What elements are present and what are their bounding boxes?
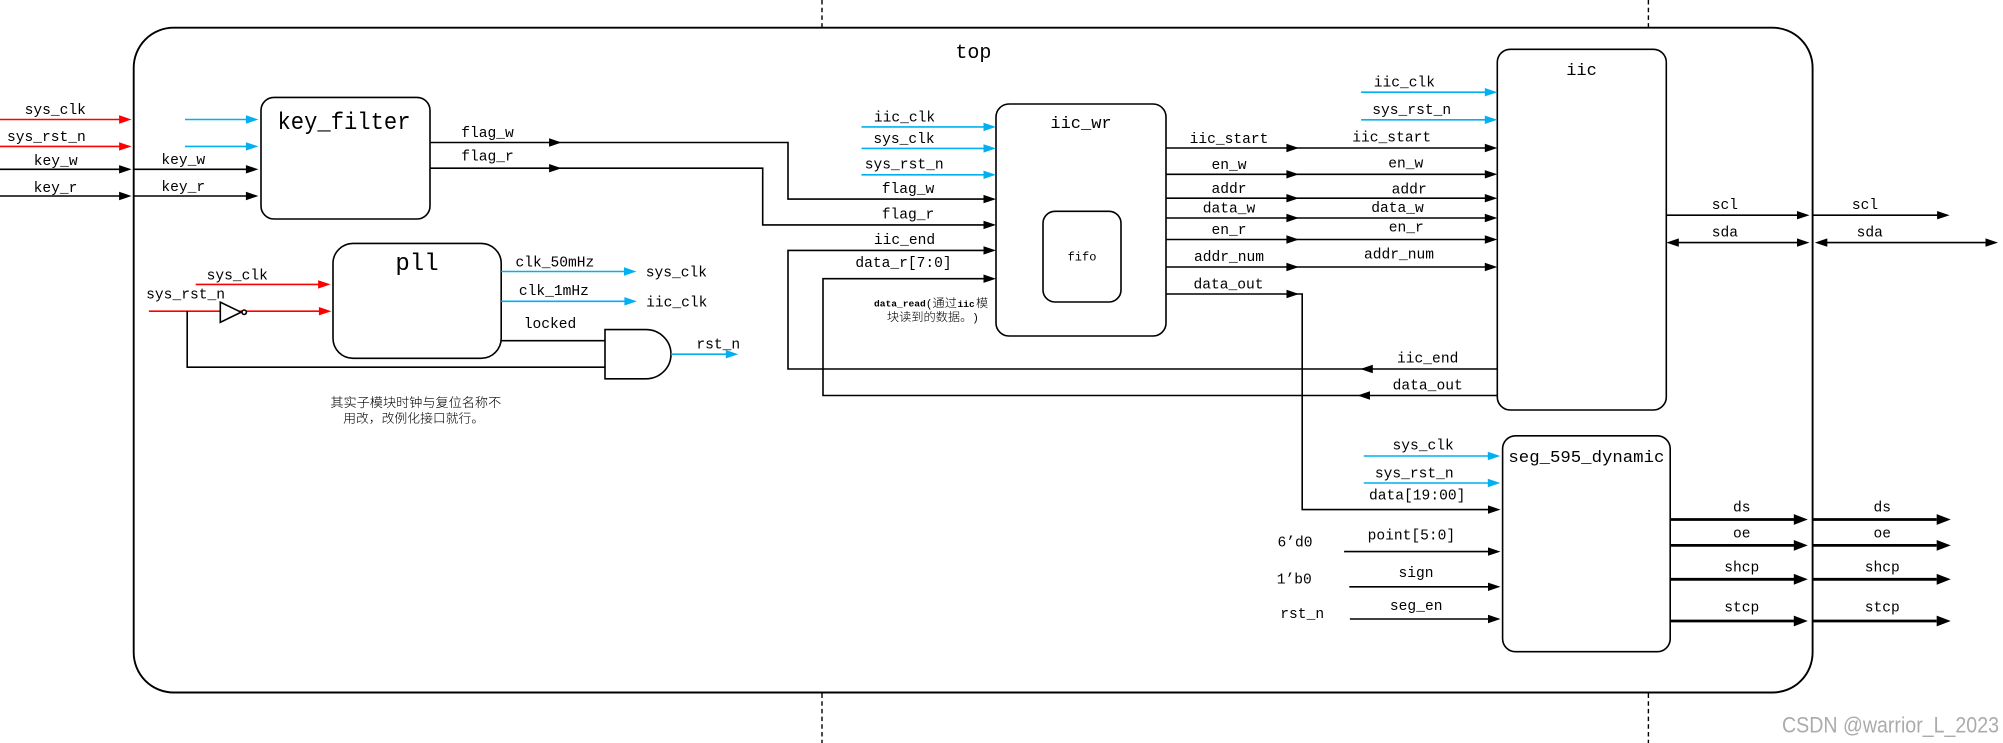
- svg-text:locked: locked: [524, 317, 577, 333]
- wire iic_end feedback (iic to iic_wr): [788, 233, 1497, 373]
- svg-text:rst_n: rst_n: [696, 338, 740, 354]
- wire data_out (iic_wr to seg_595_dynamic data input): [1166, 278, 1501, 514]
- wire sys_clk into pll (red): [196, 268, 331, 288]
- wire sys_clk (external input): [0, 103, 132, 124]
- svg-text:sys_rst_n: sys_rst_n: [1372, 103, 1451, 119]
- svg-text:addr: addr: [1211, 182, 1246, 198]
- wire sys_rst_n into key_filter (cyan): [185, 142, 258, 150]
- wire sda (external, bidirectional): [1815, 225, 1998, 246]
- svg-text:sys_clk: sys_clk: [207, 268, 269, 284]
- svg-text:seg_595_dynamic: seg_595_dynamic: [1508, 449, 1664, 468]
- wire scl (external): [1813, 198, 1950, 219]
- svg-text:sys_clk: sys_clk: [25, 103, 87, 119]
- svg-text:6’d0: 6’d0: [1277, 536, 1312, 552]
- svg-text:data_out: data_out: [1193, 278, 1263, 294]
- svg-text:en_r: en_r: [1211, 223, 1246, 239]
- inverter (NOT gate): [220, 302, 246, 322]
- wire iic_clk into iic_wr (cyan): [862, 111, 997, 132]
- svg-text:(: (: [926, 299, 933, 311]
- page boundary dash top-right: [1647, 0, 1649, 27]
- svg-text:en_r: en_r: [1389, 220, 1424, 236]
- wire key_r (external input): [0, 181, 132, 200]
- svg-text:data_w: data_w: [1371, 201, 1424, 217]
- page boundary dash bottom-right: [1647, 694, 1649, 743]
- wire stcp (seg output): [1670, 601, 1951, 627]
- svg-text:key_r: key_r: [34, 181, 78, 197]
- wire key_r into key_filter: [134, 180, 259, 200]
- svg-text:key_w: key_w: [161, 153, 205, 169]
- wire sign with constant 1'b0: [1277, 566, 1501, 591]
- wire sys_rst_n branch to AND gate: [187, 311, 605, 367]
- svg-text:addr_num: addr_num: [1194, 250, 1264, 266]
- wire addr (iic_wr to iic): [1166, 182, 1497, 202]
- svg-text:rst_n: rst_n: [1280, 607, 1324, 623]
- top module box: [134, 28, 1813, 693]
- svg-text:sys_clk: sys_clk: [1392, 439, 1454, 455]
- wire clk_50mHz to sys_clk (cyan): [501, 256, 707, 282]
- svg-text:sda: sda: [1712, 225, 1739, 241]
- svg-text:key_r: key_r: [161, 180, 205, 196]
- wire sys_clk into key_filter (cyan): [185, 115, 258, 123]
- svg-text:iic_start: iic_start: [1352, 131, 1431, 147]
- svg-text:scl: scl: [1852, 198, 1878, 214]
- svg-text:iic_wr: iic_wr: [1050, 115, 1111, 134]
- svg-text:sign: sign: [1398, 566, 1433, 582]
- svg-text:sys_clk: sys_clk: [646, 265, 708, 281]
- svg-text:flag_w: flag_w: [882, 182, 935, 198]
- wire addr_num (iic_wr to iic): [1166, 248, 1497, 272]
- svg-text:stcp: stcp: [1724, 601, 1759, 617]
- wire data_out feedback (iic to iic_wr data_r): [823, 256, 1497, 400]
- svg-text:stcp: stcp: [1865, 601, 1900, 617]
- svg-text:data_out: data_out: [1393, 378, 1463, 394]
- module key_filter: [261, 97, 430, 219]
- svg-text:shcp: shcp: [1724, 561, 1759, 577]
- wire sys_rst_n into iic_wr (cyan): [862, 158, 997, 179]
- svg-text:iic_end: iic_end: [874, 233, 935, 249]
- svg-text:flag_r: flag_r: [882, 207, 935, 223]
- wire data_w (iic_wr to iic): [1166, 201, 1497, 222]
- svg-text:top: top: [955, 42, 991, 65]
- wire locked to AND gate: [501, 317, 605, 341]
- wire key_w into key_filter: [134, 153, 259, 173]
- module iic_wr: [996, 104, 1166, 336]
- AND gate U1: [605, 330, 671, 379]
- module seg_595_dynamic: [1503, 436, 1671, 652]
- module iic: [1497, 49, 1666, 410]
- svg-text:): ): [972, 313, 979, 325]
- wire flag_w (key_filter to iic_wr): [430, 126, 996, 203]
- svg-text:clk_50mHz: clk_50mHz: [515, 256, 594, 272]
- svg-text:point[5:0]: point[5:0]: [1368, 528, 1456, 544]
- svg-text:oe: oe: [1733, 526, 1751, 542]
- svg-text:iic: iic: [958, 299, 976, 310]
- svg-text:addr: addr: [1392, 183, 1427, 199]
- fifo submodule box: [1043, 211, 1121, 302]
- svg-text:sys_rst_n: sys_rst_n: [1375, 467, 1454, 483]
- wire iic_start (iic_wr to iic): [1166, 131, 1497, 153]
- svg-text:pll: pll: [395, 251, 438, 278]
- wire seg_en driven by rst_n: [1280, 599, 1500, 623]
- svg-text:sda: sda: [1857, 225, 1884, 241]
- svg-text:ds: ds: [1874, 501, 1892, 517]
- wire sys_rst_n into iic (cyan): [1361, 103, 1497, 124]
- wire en_r (iic_wr to iic): [1166, 220, 1497, 243]
- wire sys_rst_n into pll (red, through inverter): [146, 288, 331, 316]
- svg-text:en_w: en_w: [1211, 158, 1246, 174]
- svg-text:ds: ds: [1733, 501, 1751, 517]
- svg-text:sys_rst_n: sys_rst_n: [865, 158, 944, 174]
- svg-text:data_r[7:0]: data_r[7:0]: [855, 256, 951, 272]
- svg-text:iic_clk: iic_clk: [646, 296, 708, 312]
- wire sys_clk into iic_wr (cyan): [862, 132, 997, 153]
- wire sys_rst_n into seg_595_dynamic (cyan): [1364, 467, 1501, 488]
- svg-text:iic_end: iic_end: [1397, 351, 1458, 367]
- svg-text:shcp: shcp: [1865, 561, 1900, 577]
- svg-text:data[19:00]: data[19:00]: [1369, 489, 1465, 505]
- svg-text:iic: iic: [1566, 62, 1597, 81]
- module pll: [333, 243, 501, 358]
- svg-text:fifo: fifo: [1068, 251, 1097, 265]
- wire ds (seg output): [1670, 501, 1951, 525]
- svg-text:iic_clk: iic_clk: [874, 111, 936, 127]
- annotation data_read note: [874, 297, 988, 325]
- wire sda (iic, bidirectional): [1666, 225, 1809, 246]
- svg-text:iic_clk: iic_clk: [1374, 75, 1436, 91]
- svg-text:seg_en: seg_en: [1390, 599, 1443, 615]
- svg-text:iic_start: iic_start: [1190, 132, 1269, 148]
- svg-text:scl: scl: [1712, 198, 1738, 214]
- wire clk_1mHz to iic_clk (cyan): [501, 284, 707, 312]
- svg-text:addr_num: addr_num: [1364, 248, 1434, 264]
- svg-text:flag_r: flag_r: [461, 150, 514, 166]
- wire flag_r (key_filter to iic_wr): [430, 150, 996, 230]
- svg-text:oe: oe: [1874, 526, 1892, 542]
- annotation note: submodule clock/reset naming: [331, 396, 501, 424]
- svg-text:clk_1mHz: clk_1mHz: [519, 284, 589, 300]
- svg-text:sys_clk: sys_clk: [873, 132, 935, 148]
- wire sys_rst_n (external input): [0, 130, 132, 151]
- svg-text:1’b0: 1’b0: [1277, 573, 1312, 589]
- svg-text:en_w: en_w: [1388, 157, 1423, 173]
- wire key_w (external input): [0, 154, 132, 174]
- wire oe (seg output): [1670, 526, 1951, 550]
- svg-text:key_w: key_w: [34, 154, 78, 170]
- svg-text:key_filter: key_filter: [278, 110, 411, 137]
- page boundary dash bottom-left: [821, 694, 823, 743]
- wire shcp (seg output): [1670, 561, 1951, 585]
- svg-text:sys_rst_n: sys_rst_n: [146, 288, 225, 304]
- wire iic_clk into iic (cyan): [1361, 75, 1497, 96]
- page boundary dash top-left: [821, 0, 823, 27]
- svg-text:data_w: data_w: [1203, 202, 1256, 218]
- wire en_w (iic_wr to iic): [1166, 157, 1497, 179]
- wire point[5:0] with constant 6'd0: [1277, 528, 1500, 556]
- svg-text:data_read: data_read: [874, 298, 926, 309]
- wire scl (iic output): [1666, 198, 1809, 219]
- svg-text:CSDN @warrior_L_2023: CSDN @warrior_L_2023: [1782, 713, 1999, 738]
- svg-text:flag_w: flag_w: [461, 126, 514, 142]
- wire sys_clk into seg_595_dynamic (cyan): [1364, 439, 1501, 461]
- wire rst_n output of AND gate (cyan): [671, 338, 740, 359]
- svg-text:sys_rst_n: sys_rst_n: [7, 130, 86, 146]
